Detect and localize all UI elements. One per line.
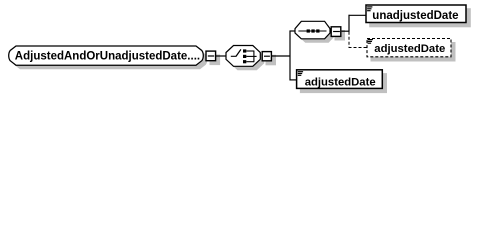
expand box (minus) of sequence, shadow — [335, 30, 346, 41]
trunk2 solid part (to required child) — [348, 15, 350, 32]
content icon of adjustedDate — [298, 71, 303, 73]
content icon of optional adjustedDate — [368, 39, 373, 41]
trunk of choice branches — [289, 31, 291, 81]
shadow of element AdjustedAndOrUnadjustedDate — [13, 50, 208, 69]
element adjustedDate (bottom) — [297, 70, 383, 89]
sequence icon: dots — [307, 29, 310, 32]
expand box (minus) of choice, shadow — [266, 55, 277, 66]
optional element adjustedDate shadow — [371, 42, 456, 62]
choice icon: option stubs and bar — [246, 50, 254, 52]
dashed wire to optional adjustedDate — [349, 47, 368, 49]
choice icon: input stub — [231, 55, 236, 57]
element unadjustedDate — [366, 5, 466, 23]
minus sign — [333, 31, 340, 33]
choice icon: option squares — [243, 49, 246, 52]
element adjustedDate (bottom) shadow — [300, 73, 387, 93]
expand box (minus) of element — [206, 51, 216, 61]
svg-text:adjustedDate: adjustedDate — [305, 76, 376, 88]
sequence compositor octagon — [295, 21, 330, 39]
wire trunk to sequence — [290, 30, 296, 32]
svg-text:AdjustedAndOrUnadjustedDate...: AdjustedAndOrUnadjustedDate.... — [15, 51, 200, 63]
element unadjustedDate shadow — [369, 8, 471, 27]
expand box (minus) of sequence — [331, 27, 341, 37]
optional element adjustedDate (dashed) — [367, 39, 451, 57]
wire to unadjustedDate — [349, 14, 367, 16]
wire choice to branch trunk — [272, 55, 291, 57]
minus sign — [264, 55, 270, 57]
svg-text:unadjustedDate: unadjustedDate — [372, 10, 458, 22]
expand box (minus) of element, shadow — [210, 55, 221, 66]
choice compositor octagon — [226, 46, 260, 67]
wire trunk to bottom adjustedDate — [290, 79, 297, 81]
svg-text:adjustedDate: adjustedDate — [374, 43, 445, 55]
sequence compositor shadow — [299, 25, 334, 43]
trunk2 dashed part (to optional child) — [348, 32, 350, 48]
wire sequence to trunk2 — [342, 30, 350, 32]
choice icon: switch diagonal — [236, 49, 241, 56]
wire expand box to choice — [216, 55, 227, 57]
sequence icon: line — [298, 30, 326, 32]
element AdjustedAndOrUnadjustedDate.... (white body) — [9, 46, 204, 65]
expand box (minus) of choice — [262, 52, 271, 61]
minus sign — [208, 55, 214, 57]
choice compositor shadow — [230, 50, 264, 71]
content icon of unadjustedDate — [367, 6, 372, 8]
